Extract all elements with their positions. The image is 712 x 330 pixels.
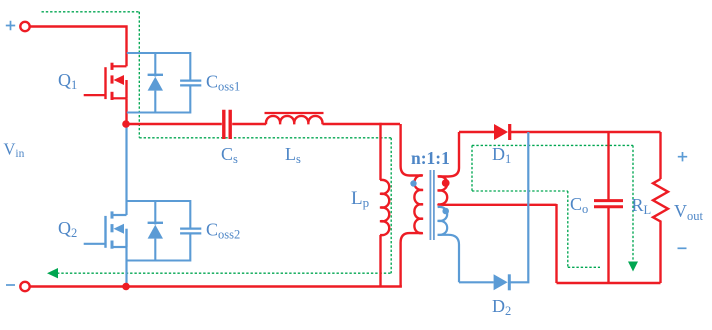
- secondary bottom winding (to D2): [438, 207, 459, 282]
- primary bottom lead: [401, 233, 422, 286]
- Co top lead: [607, 132, 609, 200]
- wire: Q1 source to mid node: [125, 98, 127, 124]
- center tap drop to bottom output rail: [555, 204, 557, 283]
- wire: mid node to Cs: [127, 123, 222, 125]
- loop B left-vertical segment: [471, 145, 473, 191]
- D2 cathode wire and riser to + rail: [511, 132, 529, 282]
- output plus sign: [678, 152, 687, 161]
- Ls top bar: [265, 112, 324, 114]
- polarity dot primary (blue): [410, 180, 416, 186]
- wire: bottom rail: [30, 285, 402, 287]
- loop A right-vertical segment: [390, 138, 392, 273]
- loop B right-vertical segment: [632, 145, 634, 261]
- loop B inner vertical segment: [567, 191, 569, 267]
- primary humps: [414, 175, 423, 233]
- svg-text:RL: RL: [632, 195, 652, 217]
- loop A arrowhead (points left): [47, 268, 58, 278]
- wire: Q2 source down to bottom rail: [125, 247, 127, 287]
- RL bottom lead / right rail: [659, 230, 661, 283]
- secondary top humps: [438, 176, 448, 204]
- wire: Ls to primary top corner: [323, 123, 401, 125]
- D1 cathode bar: [508, 124, 511, 140]
- wire: Cs to Ls: [232, 123, 266, 125]
- svg-text:n:1:1: n:1:1: [411, 148, 450, 168]
- svg-text:D2: D2: [492, 296, 511, 318]
- svg-text:Coss2: Coss2: [206, 220, 240, 242]
- polarity dot secondary top (red): [442, 179, 450, 187]
- svg-text:Coss1: Coss1: [206, 72, 240, 94]
- secondary bottom humps: [438, 207, 448, 235]
- svg-text:Ls: Ls: [285, 144, 301, 166]
- svg-text:Vout: Vout: [674, 201, 704, 223]
- polarity dot secondary bottom (blue): [442, 208, 449, 215]
- bottom output rail: [557, 282, 661, 284]
- minus terminal circle: [20, 282, 29, 291]
- Lp top leg: [379, 123, 381, 180]
- Ls humps: [266, 116, 323, 124]
- Co bottom lead: [607, 207, 609, 283]
- svg-text:Vin: Vin: [4, 140, 25, 161]
- loop B arrowhead (points down): [628, 262, 638, 272]
- node: bottom rail junction dot: [122, 283, 130, 291]
- D1 triangle: [494, 124, 508, 140]
- svg-text:D1: D1: [492, 144, 511, 166]
- plus terminal circle: [20, 22, 29, 31]
- loop B middle horizontal segment: [472, 190, 568, 192]
- D2 anode wire from secondary bottom: [459, 281, 494, 283]
- minus sign: [6, 284, 15, 286]
- loop A left-vertical segment: [138, 12, 140, 138]
- output minus sign: [678, 247, 687, 249]
- transformer core lines: [430, 170, 434, 240]
- svg-text:Lp: Lp: [351, 188, 369, 210]
- primary top lead: [401, 124, 422, 176]
- secondary top winding (to D1): [438, 132, 557, 205]
- loop A bottom segment: [57, 272, 391, 274]
- RL zigzag: [653, 179, 668, 230]
- D1 cathode wire / top output rail: [511, 131, 661, 133]
- plus sign: [6, 21, 15, 30]
- center tap lead: [438, 203, 557, 206]
- D2 triangle: [494, 274, 508, 290]
- svg-text:Co: Co: [570, 194, 588, 216]
- Lp bottom leg: [379, 235, 381, 287]
- loop A middle horizontal segment: [139, 137, 391, 139]
- primary winding: [401, 124, 423, 287]
- Lp humps: [380, 180, 389, 235]
- loop A top segment: [42, 11, 140, 13]
- svg-text:Q1: Q1: [58, 70, 77, 92]
- D1 anode wire: [459, 131, 494, 133]
- D2 cathode bar: [508, 274, 511, 290]
- capacitor Co plates: [594, 201, 623, 207]
- secondary bottom lead: [438, 235, 459, 282]
- svg-text:Cs: Cs: [221, 144, 238, 166]
- wire: top rail from + to Q1 drain: [30, 27, 127, 67]
- loop B top segment: [472, 144, 633, 146]
- RL top lead: [659, 132, 661, 179]
- node: half-bridge midpoint junction dot: [122, 120, 130, 128]
- svg-text:Q2: Q2: [58, 218, 77, 240]
- wire: mid node down to Q2 drain: [125, 126, 127, 215]
- secondary top lead riser: [439, 132, 460, 177]
- loop B inner bottom segment: [568, 266, 600, 268]
